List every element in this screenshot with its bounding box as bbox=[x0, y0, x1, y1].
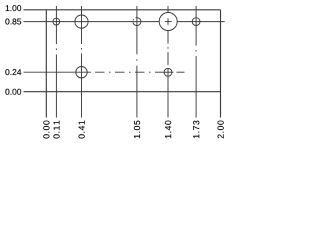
y tick label 0.85 bbox=[5, 19, 21, 25]
hole C circle (1.05, 0.85) bbox=[133, 18, 141, 26]
node column 1.73 centerline dot bbox=[195, 50, 197, 52]
y tick label 0.00 bbox=[5, 89, 21, 95]
x tick label 1.40 bbox=[165, 121, 171, 139]
node column 0.41 centerline through hole F and leader bbox=[81, 66, 83, 118]
x tick label 0.41 bbox=[79, 121, 85, 139]
hole A circle (0.11, 0.85) bbox=[53, 18, 60, 25]
node column 1.73 leader bbox=[195, 92, 197, 118]
node column 1.05 leader bbox=[136, 92, 138, 118]
node column 0.11 centerline long dash bbox=[55, 55, 57, 92]
hole E circle (1.73, 0.85) bbox=[192, 18, 200, 26]
node column 1.05 dash-dot centerline bbox=[136, 26, 138, 91]
node column 1.73 centerline top bbox=[195, 6, 197, 26]
hole D circle (1.40, 0.85) bbox=[159, 13, 177, 31]
node column 0.11 centerline dot bbox=[55, 49, 57, 51]
node column 0.11 centerline dash bbox=[55, 27, 57, 45]
node column 0.41 centerline top bbox=[81, 6, 83, 29]
node column 1.05 centerline top bbox=[136, 6, 138, 26]
plate outline left edge with 0.00 column leader bbox=[45, 10, 47, 118]
x tick label 1.05 bbox=[134, 121, 140, 139]
x tick label 1.73 bbox=[193, 121, 199, 139]
node column 1.40 centerline top bbox=[167, 6, 169, 12]
plate outline top edge with 1.00 leader bbox=[24, 9, 221, 11]
y tick label 0.24 bbox=[5, 69, 21, 75]
node row 0.24 leader and centerline through hole F bbox=[24, 71, 92, 73]
node row 0.85 center cross of hole D bbox=[165, 21, 172, 23]
node column 0.41 dash-dot centerline bbox=[81, 29, 83, 66]
node row 0.24 centerline end dash bbox=[177, 71, 185, 73]
hole F circle (0.41, 0.24) bbox=[76, 67, 87, 78]
node column 0.11 leader bbox=[55, 92, 57, 118]
x tick label 2.00 bbox=[218, 121, 224, 139]
node row 0.24 dash-dot centerline right of hole F bbox=[95, 71, 161, 73]
node column 1.73 centerline dash bbox=[195, 26, 197, 46]
x tick label 0.00 bbox=[43, 121, 49, 139]
plate outline bottom edge with 0.00 leader bbox=[24, 91, 221, 93]
y tick label 1.00 bbox=[6, 5, 22, 11]
node column 1.40 dash-dot centerline bbox=[167, 31, 169, 69]
node row 0.24 centerline through hole G bbox=[161, 71, 174, 73]
node row 0.85 centerline left of hole D bbox=[24, 21, 160, 23]
node row 0.85 centerline right of hole D bbox=[177, 21, 224, 23]
plate outline right edge with 2.00 column leader bbox=[220, 10, 222, 118]
node column 1.40 center cross of hole D bbox=[167, 18, 169, 25]
hole B circle (0.41, 0.85) bbox=[75, 15, 88, 28]
node column 0.11 centerline top bbox=[55, 6, 57, 27]
x tick label 0.11 bbox=[53, 121, 59, 139]
hole G circle (1.40, 0.24) bbox=[164, 68, 172, 76]
node column 1.73 centerline long dash bbox=[195, 56, 197, 92]
node column 1.40 centerline through hole G and leader bbox=[167, 68, 169, 117]
